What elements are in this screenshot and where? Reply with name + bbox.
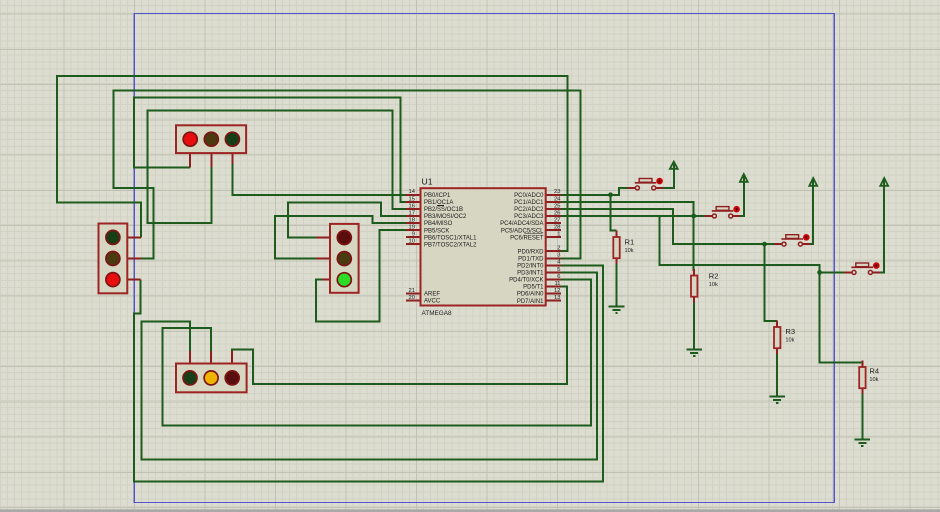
svg-text:AVCC: AVCC xyxy=(424,299,441,305)
wire TL1 yellow lamp to U1 pin16 PB2 xyxy=(148,111,407,224)
svg-text:PC3/ADC3: PC3/ADC3 xyxy=(514,214,544,220)
wire TL2 red lamp to U1 pin4 PD2 xyxy=(134,265,603,481)
svg-text:3: 3 xyxy=(557,253,560,259)
ground below R2 xyxy=(686,350,702,357)
svg-text:10k: 10k xyxy=(785,338,794,344)
svg-text:1: 1 xyxy=(557,232,560,238)
svg-text:19: 19 xyxy=(409,224,415,230)
ground below R3 xyxy=(769,396,785,403)
svg-text:10: 10 xyxy=(409,239,415,245)
svg-text:PD0/RXD: PD0/RXD xyxy=(517,249,544,255)
svg-text:ATMEGA8: ATMEGA8 xyxy=(422,310,453,317)
svg-text:5: 5 xyxy=(557,267,560,273)
svg-text:13: 13 xyxy=(554,295,560,301)
svg-text:PC1/ADC1: PC1/ADC1 xyxy=(514,200,544,206)
junction node D xyxy=(817,270,822,275)
wire R1 bottom to ground xyxy=(616,264,618,306)
svg-text:9: 9 xyxy=(412,232,415,238)
svg-text:25: 25 xyxy=(554,203,560,209)
svg-text:10k: 10k xyxy=(869,377,878,383)
wire TL4 red lamp to U1 pin11 PD5 xyxy=(232,286,567,384)
traffic light TL3 (middle, green lit) xyxy=(316,224,359,293)
svg-text:21: 21 xyxy=(409,288,415,294)
svg-text:16: 16 xyxy=(409,203,415,209)
svg-text:PD6/AIN0: PD6/AIN0 xyxy=(517,292,544,298)
resistor R2 xyxy=(691,269,719,302)
svg-text:PD5/T1: PD5/T1 xyxy=(523,285,544,291)
traffic light TL4 (bottom, yellow lit) xyxy=(176,351,247,392)
wire TL3 green lamp to U1 pin19 PB5 xyxy=(316,230,407,322)
svg-text:6: 6 xyxy=(557,274,560,280)
power arrow VCC 4 xyxy=(880,178,888,186)
wire node A to resistor R1 xyxy=(611,195,617,231)
svg-text:2: 2 xyxy=(557,246,560,252)
wire U1 pin26 PC3 to button SW2 xyxy=(561,215,708,217)
svg-text:23: 23 xyxy=(554,189,560,195)
microcontroller U1 ATMEGA8 xyxy=(406,177,561,318)
traffic light TL2 (left, red lit) xyxy=(99,224,142,294)
svg-text:PC2/ADC2: PC2/ADC2 xyxy=(514,207,544,213)
push button SW1 xyxy=(627,178,663,190)
svg-text:PB2/SS/OC1B: PB2/SS/OC1B xyxy=(424,207,463,213)
svg-text:18: 18 xyxy=(409,217,415,223)
wire node A to button SW1 xyxy=(611,188,632,195)
ground below R1 xyxy=(609,306,625,313)
svg-text:11: 11 xyxy=(554,281,560,287)
svg-text:28: 28 xyxy=(554,224,560,230)
wire PC3 branch to button SW4 row xyxy=(659,216,846,272)
wire node C to resistor R3 xyxy=(765,244,778,321)
svg-text:20: 20 xyxy=(409,295,415,301)
svg-text:PB4/MISO: PB4/MISO xyxy=(424,221,453,227)
junction node B xyxy=(691,214,696,219)
traffic light TL1 (top, red lit) xyxy=(176,125,246,167)
push button SW3 xyxy=(774,234,810,246)
wire R2 bottom to ground xyxy=(693,301,695,349)
power arrow VCC 2 xyxy=(740,174,748,182)
svg-text:26: 26 xyxy=(554,210,560,216)
svg-text:PD4/T0/XCK: PD4/T0/XCK xyxy=(509,278,543,284)
svg-text:17: 17 xyxy=(409,210,415,216)
svg-text:PB5/SCK: PB5/SCK xyxy=(424,228,449,234)
svg-text:PD7/AIN1: PD7/AIN1 xyxy=(517,299,544,305)
resistor R4 xyxy=(859,361,879,394)
push button SW4 xyxy=(844,262,880,274)
svg-text:R4: R4 xyxy=(869,367,879,376)
junction node C xyxy=(762,242,767,247)
svg-text:PD2/INT0: PD2/INT0 xyxy=(517,264,544,270)
wire TL3 yellow lamp to U1 pin18 PB4 xyxy=(275,216,407,258)
svg-text:15: 15 xyxy=(409,196,415,202)
svg-text:PB6/TOSC1/XTAL1: PB6/TOSC1/XTAL1 xyxy=(424,235,477,241)
svg-text:R1: R1 xyxy=(625,238,635,247)
wire U1 pin25 PC2 to button SW3 xyxy=(561,209,777,244)
resistor R1 xyxy=(613,231,634,264)
svg-text:PC4/ADC4/SDA: PC4/ADC4/SDA xyxy=(500,221,543,227)
svg-text:14: 14 xyxy=(409,189,416,195)
svg-text:PB7/TOSC2/XTAL2: PB7/TOSC2/XTAL2 xyxy=(424,242,477,248)
wire R3 bottom to ground xyxy=(776,353,778,396)
wire U1 pin24 PC1 to node B / R2 xyxy=(561,202,694,271)
svg-text:12: 12 xyxy=(554,288,560,294)
svg-text:PB0/ICP1: PB0/ICP1 xyxy=(424,193,451,199)
wire SW3 to power arrow 3 xyxy=(809,180,813,245)
wire TL2 green lamp to U1 pin2 PD0 xyxy=(57,76,567,251)
wire SW2 to power arrow 2 xyxy=(740,176,744,217)
svg-text:R2: R2 xyxy=(709,272,719,281)
svg-text:PC6/RESET: PC6/RESET xyxy=(510,235,544,241)
wire SW1 to power arrow 1 xyxy=(663,163,674,188)
push button SW2 xyxy=(704,206,740,218)
junction node A xyxy=(608,192,613,197)
wire TL4 yellow lamp to U1 pin6 PD4 xyxy=(162,279,591,425)
svg-text:R3: R3 xyxy=(785,327,795,336)
power arrow VCC 1 xyxy=(670,162,678,169)
svg-text:U1: U1 xyxy=(422,177,433,187)
wire TL1 green lamp to U1 pin14 PB0 xyxy=(232,164,406,195)
wire U1 pin23 PC0 to node A xyxy=(561,194,611,196)
wire TL3 red lamp to U1 pin17 PB3 xyxy=(288,203,406,238)
svg-text:24: 24 xyxy=(554,196,561,202)
svg-text:PD1/TXD: PD1/TXD xyxy=(518,256,544,262)
resistor R3 xyxy=(774,321,795,354)
wire SW4 to power arrow 4 xyxy=(879,180,884,273)
svg-text:PD3/INT1: PD3/INT1 xyxy=(517,271,544,277)
wire TL4 green lamp to U1 pin5 PD3 xyxy=(141,272,597,459)
svg-text:10k: 10k xyxy=(709,282,718,288)
wire TL2 yellow lamp to U1 pin3 PD1 xyxy=(113,90,580,258)
wire node D to resistor R4 xyxy=(820,272,863,362)
wire R4 bottom to ground xyxy=(861,393,863,439)
svg-text:AREF: AREF xyxy=(424,292,440,298)
svg-text:27: 27 xyxy=(554,217,560,223)
wire TL1 red lamp to U1 pin15 PB1 xyxy=(134,98,407,202)
svg-text:10k: 10k xyxy=(625,248,634,254)
ground below R4 xyxy=(855,440,871,447)
svg-text:PB3/MOSI/OC2: PB3/MOSI/OC2 xyxy=(424,214,467,220)
power arrow VCC 3 xyxy=(809,178,817,186)
svg-text:PC0/ADC0: PC0/ADC0 xyxy=(514,193,544,199)
